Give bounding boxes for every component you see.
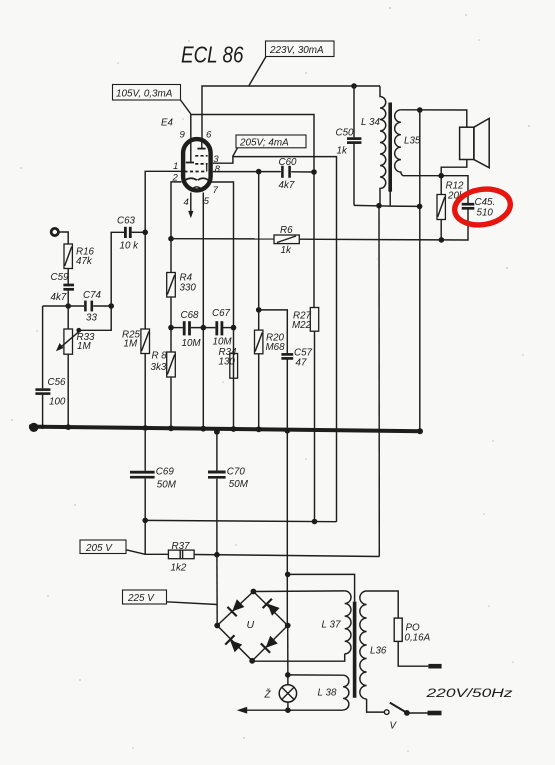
capacitor C59 bbox=[51, 272, 75, 303]
svg-text:Ž: Ž bbox=[264, 690, 272, 701]
node C70 / bridge feed on R37 row bbox=[214, 552, 220, 558]
svg-text:225 V: 225 V bbox=[127, 593, 155, 604]
pointer wire 225V box bbox=[167, 602, 218, 605]
wire R27 down to 205V rail bbox=[314, 331, 316, 521]
transformer screen bar (output) bbox=[388, 103, 419, 207]
callout box 223V 30mA bbox=[266, 41, 335, 57]
node screen feed bbox=[285, 572, 291, 578]
capacitor C68 bbox=[181, 310, 202, 349]
callout box 225 V bbox=[123, 590, 167, 604]
pointer wire 205V box bbox=[126, 550, 145, 555]
diode D4 lower-right bbox=[261, 635, 279, 653]
node R20 top branch bbox=[256, 307, 262, 313]
bus node R34 bbox=[231, 426, 237, 432]
capacitor C60 bbox=[279, 157, 298, 191]
wire R4 to C68 row bbox=[170, 297, 172, 352]
pentode grid g1 dashes bbox=[195, 155, 207, 157]
fuse PO 0,16A bbox=[394, 618, 430, 643]
svg-text:330: 330 bbox=[180, 283, 197, 294]
resistor R27 bbox=[292, 308, 319, 332]
svg-text:220V/50Hz: 220V/50Hz bbox=[425, 686, 512, 700]
wire pin4 heater with arrow bbox=[188, 193, 193, 219]
bus node C57 bridge line bbox=[285, 428, 291, 434]
svg-text:C56: C56 bbox=[48, 377, 67, 388]
node pin8 row / triode anode bbox=[311, 169, 317, 175]
bus node R8 bbox=[168, 425, 174, 431]
node C63 / pin1 line bbox=[142, 230, 148, 236]
node R33 wiper bbox=[76, 328, 81, 333]
svg-text:223V, 30mA: 223V, 30mA bbox=[269, 45, 324, 56]
svg-text:3k3: 3k3 bbox=[151, 362, 167, 373]
resistor R37 bbox=[168, 541, 194, 574]
svg-text:1k: 1k bbox=[337, 146, 348, 157]
diode D2 upper-right bbox=[263, 599, 281, 617]
wire R8 to bus bbox=[170, 377, 172, 428]
node C50 top bbox=[351, 83, 357, 89]
node C68 left bbox=[168, 325, 174, 331]
wire pin7 pentode cathode down bbox=[211, 182, 234, 430]
wire R37 row bbox=[145, 520, 168, 554]
capacitor C50 bbox=[336, 128, 362, 157]
capacitor C69 bbox=[130, 431, 177, 520]
node R6 row right end bbox=[439, 237, 445, 243]
svg-text:1k: 1k bbox=[281, 245, 292, 256]
capacitor C45 bbox=[462, 197, 496, 219]
wire pin8 row bbox=[213, 171, 281, 173]
node C69 bottom 205V rail bbox=[142, 518, 148, 524]
resistor R8 bbox=[151, 351, 176, 378]
wire L34 bottom row bbox=[354, 204, 390, 207]
pointer wire from 105V box bbox=[181, 100, 191, 114]
svg-text:M68: M68 bbox=[266, 342, 286, 353]
wire C74 right to C63 and wiper bbox=[81, 306, 112, 330]
svg-text:L36: L36 bbox=[370, 646, 387, 657]
svg-text:1k2: 1k2 bbox=[171, 563, 187, 574]
svg-text:47: 47 bbox=[296, 358, 307, 369]
resistor R12 bbox=[437, 181, 465, 220]
wire junction row y306 bbox=[43, 305, 84, 307]
node C74/C63 junction bbox=[108, 303, 114, 309]
svg-text:E4: E4 bbox=[161, 118, 174, 129]
svg-text:7: 7 bbox=[213, 185, 219, 196]
resistor R6 bbox=[274, 225, 299, 256]
resistor R34 bbox=[219, 347, 238, 378]
wire bridge top to L37 top bbox=[253, 590, 344, 593]
svg-text:L 34: L 34 bbox=[361, 117, 380, 128]
svg-text:C69: C69 bbox=[156, 467, 175, 478]
grid g3 and triode grid dashes bbox=[184, 171, 207, 173]
svg-text:9: 9 bbox=[180, 130, 186, 141]
svg-text:10M: 10M bbox=[182, 338, 202, 349]
node bridge left bbox=[214, 623, 220, 629]
wire C57 to bus and down to bridge bbox=[286, 360, 288, 626]
red highlight ellipse bbox=[452, 185, 513, 229]
ground bus right end node bbox=[417, 428, 423, 434]
wire R20 line from pin8 row bbox=[258, 172, 260, 331]
resistor R16 bbox=[64, 244, 95, 269]
mains terminal 2 bbox=[428, 711, 442, 716]
wire C57 branch bbox=[259, 310, 288, 353]
capacitor C63 bbox=[117, 216, 139, 252]
wire R16 to C59 bbox=[67, 269, 69, 285]
svg-text:C45.: C45. bbox=[475, 197, 496, 208]
svg-text:105V, 0,3mA: 105V, 0,3mA bbox=[116, 89, 173, 100]
svg-text:1M: 1M bbox=[124, 339, 138, 350]
wire L34 bottom down to R37 row bbox=[378, 206, 380, 557]
svg-text:205V; 4mA: 205V; 4mA bbox=[239, 137, 289, 148]
transformer L34 primary bbox=[361, 86, 386, 206]
svg-text:1M: 1M bbox=[77, 341, 91, 352]
node C68 right on pin5 line bbox=[201, 325, 207, 331]
wire R4 R8 line top bbox=[170, 239, 172, 273]
svg-text:47k: 47k bbox=[76, 256, 93, 267]
wire L38 top row bbox=[288, 674, 343, 676]
wire 225V feed down to bridge bbox=[216, 555, 218, 626]
svg-text:6: 6 bbox=[206, 130, 212, 141]
wire bridge right down to lamp bbox=[287, 626, 289, 685]
svg-text:130: 130 bbox=[219, 357, 236, 368]
node R6 left / R4 top bbox=[168, 236, 174, 242]
bus node C56 bbox=[40, 425, 45, 430]
wire input to R16 bbox=[58, 232, 68, 244]
node screen row join bbox=[417, 204, 423, 210]
transformer screen bar (mains) bbox=[353, 602, 357, 698]
node C67 right on pin7 line bbox=[231, 325, 237, 331]
g2 connector to pin 8 bbox=[206, 164, 208, 172]
resistor R25 bbox=[122, 329, 150, 354]
wire heater row with arrow bbox=[237, 707, 343, 714]
triode anode plate bbox=[186, 162, 194, 164]
bus node R20 bbox=[256, 426, 262, 432]
wire 205V rail bbox=[145, 520, 336, 521]
capacitor C67 bbox=[212, 308, 232, 348]
ground bus left terminal dot bbox=[29, 423, 38, 432]
svg-text:50M: 50M bbox=[229, 479, 249, 490]
capacitor C56 bbox=[35, 377, 66, 408]
svg-text:C60: C60 bbox=[279, 157, 298, 168]
potentiometer R33 bbox=[56, 329, 95, 354]
title ECL 86 bbox=[181, 42, 244, 68]
svg-text:C59: C59 bbox=[51, 272, 70, 283]
transformer winding L38 bbox=[318, 675, 349, 710]
bus node pin5 bbox=[200, 426, 206, 432]
node bridge bottom bbox=[249, 658, 255, 664]
svg-text:L 38: L 38 bbox=[318, 688, 337, 699]
svg-text:R 8: R 8 bbox=[152, 351, 168, 362]
pentode anode plate bbox=[197, 142, 205, 149]
wire pin5 down to ground bus bbox=[202, 193, 204, 430]
mains terminal 1 bbox=[428, 664, 441, 669]
svg-text:ECL 86: ECL 86 bbox=[181, 42, 244, 68]
node C59/C74/R33 bbox=[65, 303, 71, 309]
wire R25 line bbox=[144, 232, 146, 329]
svg-text:C63: C63 bbox=[117, 216, 136, 227]
svg-text:M22: M22 bbox=[292, 320, 312, 331]
svg-text:R37: R37 bbox=[172, 541, 191, 552]
wire switch to mains terminal 2 bbox=[407, 712, 428, 714]
pentode grid g2 dashes bbox=[195, 163, 207, 165]
wire pin3 row to right bbox=[213, 157, 337, 522]
wire secondary common vertical bbox=[419, 110, 421, 431]
svg-text:5: 5 bbox=[204, 196, 210, 207]
bus node R25 bbox=[142, 425, 148, 431]
svg-text:100: 100 bbox=[49, 397, 66, 408]
wire L36 bottom to switch bbox=[367, 699, 385, 712]
pointer wire from 205V box bbox=[233, 148, 238, 157]
pointer wire from 223V box bbox=[249, 57, 266, 86]
wire R20 to bus bbox=[258, 354, 260, 430]
svg-text:L35: L35 bbox=[404, 136, 421, 147]
svg-text:U: U bbox=[247, 619, 255, 631]
lamp Z bbox=[264, 685, 297, 702]
svg-text:10 k: 10 k bbox=[120, 241, 140, 252]
bus node C70 bbox=[214, 429, 220, 435]
wire R33 top from junction bbox=[67, 306, 69, 329]
svg-text:L 37: L 37 bbox=[322, 620, 341, 631]
bridge rectifier U bbox=[217, 592, 288, 661]
svg-text:4k7: 4k7 bbox=[279, 180, 295, 191]
ground bus bbox=[29, 427, 422, 432]
callout box 105V 0,3mA bbox=[113, 85, 181, 101]
capacitor C70 bbox=[208, 433, 249, 555]
triode cathode bbox=[185, 178, 197, 180]
node R27 bottom on 205V rail bbox=[312, 519, 318, 525]
resistor R20 bbox=[255, 330, 286, 354]
heater arc bbox=[191, 187, 203, 191]
svg-text:4k7: 4k7 bbox=[51, 292, 67, 303]
diode D1 upper-left bbox=[227, 598, 245, 616]
speaker bbox=[441, 118, 489, 175]
wire triode anode 105V row bbox=[191, 115, 314, 308]
svg-text:33: 33 bbox=[86, 313, 97, 324]
svg-text:10M: 10M bbox=[213, 337, 233, 348]
wire C63 right to pin1 line bbox=[132, 231, 146, 233]
resistor R4 bbox=[167, 273, 197, 298]
svg-text:C50: C50 bbox=[336, 128, 355, 139]
callout box 205 V bbox=[80, 540, 126, 554]
svg-text:R6: R6 bbox=[280, 225, 293, 236]
svg-text:205 V: 205 V bbox=[85, 543, 113, 554]
node pin8 / R20 branch bbox=[256, 169, 262, 175]
wire pin2 cathode down bbox=[171, 182, 182, 239]
transformer L35 secondary bbox=[395, 110, 421, 176]
wire lamp bottom bbox=[287, 702, 289, 710]
wire C63 branch up bbox=[111, 232, 124, 306]
wire bridge bottom to L37 bottom bbox=[252, 654, 345, 661]
transformer winding L37 bbox=[322, 591, 352, 654]
wire R33 to bus bbox=[67, 354, 69, 427]
wire L35 bottom row to R12 C45 bbox=[403, 176, 469, 203]
node L35 top bbox=[417, 107, 423, 113]
svg-text:50M: 50M bbox=[157, 480, 177, 491]
wire C45 bottom bbox=[441, 210, 468, 241]
wire B+ top rail bbox=[202, 86, 380, 142]
transformer winding L36 bbox=[360, 591, 387, 699]
switch V bbox=[384, 703, 409, 732]
svg-text:1: 1 bbox=[173, 161, 178, 172]
diode D3 lower-left bbox=[225, 635, 243, 653]
svg-text:8: 8 bbox=[215, 164, 221, 175]
wire C56 to bus bbox=[42, 395, 44, 427]
svg-text:0,16A: 0,16A bbox=[405, 633, 431, 644]
callout box 205V 4mA bbox=[236, 135, 306, 148]
svg-text:510: 510 bbox=[477, 208, 494, 219]
svg-text:C67: C67 bbox=[212, 308, 231, 319]
pentode cathode bbox=[198, 178, 209, 180]
node lamp top / L38 top bbox=[285, 672, 291, 678]
capacitor C57 bbox=[281, 348, 312, 369]
node speaker return bbox=[438, 173, 444, 179]
node bridge right bbox=[285, 623, 291, 629]
wire C56 branch bbox=[42, 306, 44, 388]
wire screen feed bbox=[288, 574, 355, 601]
tube ECL86 envelope bbox=[183, 139, 211, 190]
input terminal bbox=[51, 228, 58, 235]
bus node R33 bbox=[65, 424, 71, 430]
wire C50 vertical bbox=[353, 86, 355, 137]
svg-text:C68: C68 bbox=[181, 310, 200, 321]
wire R12 leads bbox=[440, 176, 442, 195]
wire fuse to mains terminal 1 bbox=[398, 641, 428, 666]
wire C68 C67 row bbox=[171, 327, 183, 329]
wire L36 top to fuse bbox=[367, 591, 399, 618]
svg-text:C74: C74 bbox=[83, 290, 102, 301]
wire L35 top to speaker bbox=[401, 110, 467, 127]
svg-text:C70: C70 bbox=[227, 467, 246, 478]
node bridge top bbox=[251, 589, 257, 595]
node L34 bottom bbox=[376, 203, 382, 209]
node lamp bottom bbox=[285, 707, 291, 713]
capacitor C74 bbox=[83, 290, 102, 324]
wire pin1 triode grid row bbox=[145, 171, 181, 232]
svg-text:4: 4 bbox=[184, 197, 189, 208]
wire C59 to junction bbox=[67, 290, 69, 306]
wire R6 row bbox=[171, 238, 274, 240]
